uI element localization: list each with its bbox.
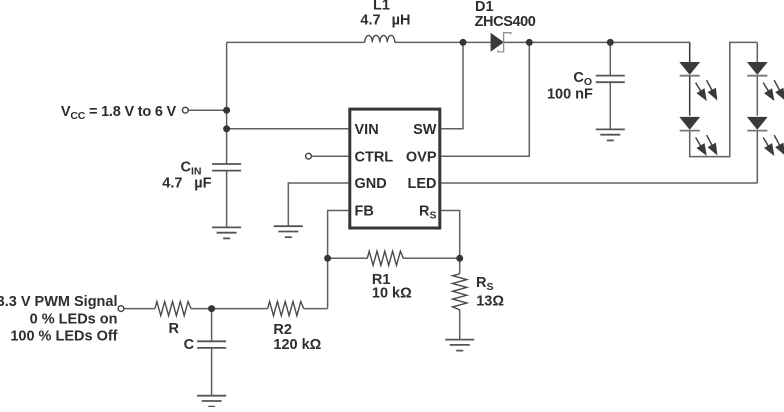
svg-text:ZHCS400: ZHCS400 xyxy=(475,14,536,30)
svg-text:3.3 V PWM Signal: 3.3 V PWM Signal xyxy=(0,294,118,310)
svg-text:CTRL: CTRL xyxy=(355,149,394,165)
svg-text:CIN: CIN xyxy=(181,159,202,177)
svg-text:10 kΩ: 10 kΩ xyxy=(372,286,412,302)
svg-text:RS: RS xyxy=(476,275,494,293)
svg-text:13Ω: 13Ω xyxy=(476,294,504,310)
svg-text:R2: R2 xyxy=(273,322,292,338)
svg-text:CO: CO xyxy=(573,70,592,88)
svg-text:SW: SW xyxy=(413,122,437,138)
svg-text:OVP: OVP xyxy=(406,149,437,165)
svg-text:100 nF: 100 nF xyxy=(547,86,593,102)
svg-text:4.7: 4.7 xyxy=(360,12,380,28)
svg-text:VCC = 1.8 V to 6 V: VCC = 1.8 V to 6 V xyxy=(61,104,177,122)
svg-text:D1: D1 xyxy=(475,0,494,15)
svg-text:100 % LEDs Off: 100 % LEDs Off xyxy=(10,328,117,344)
svg-text:LED: LED xyxy=(408,176,437,192)
svg-text:4.7: 4.7 xyxy=(162,176,182,192)
svg-text:µH: µH xyxy=(392,12,411,28)
svg-text:C: C xyxy=(184,337,195,353)
svg-text:FB: FB xyxy=(355,204,374,220)
svg-text:120 kΩ: 120 kΩ xyxy=(273,337,321,353)
svg-text:R: R xyxy=(169,321,180,337)
svg-text:0 % LEDs on: 0 % LEDs on xyxy=(30,311,118,327)
svg-text:VIN: VIN xyxy=(355,122,379,138)
svg-text:µF: µF xyxy=(194,176,211,192)
svg-text:GND: GND xyxy=(355,176,387,192)
